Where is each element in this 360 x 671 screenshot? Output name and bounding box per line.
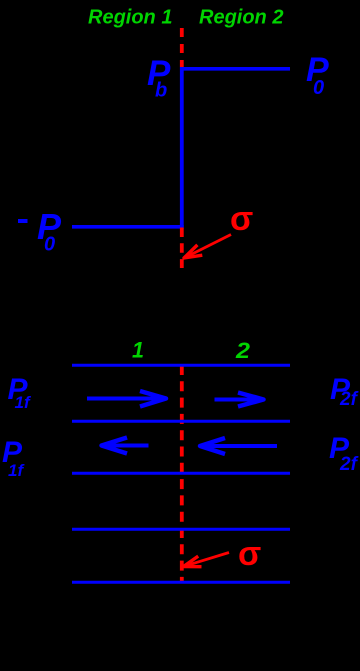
string line 1 [72,364,290,367]
svg-text:0: 0 [44,234,55,256]
svg-text:2f: 2f [339,389,359,410]
svg-text:2f: 2f [339,454,359,475]
arrow P1f leftward [102,438,149,454]
arrow P1f rightward [87,391,166,407]
string line 5 [72,581,290,584]
svg-text:1f: 1f [8,461,25,480]
label P_0 (top right) [306,51,329,99]
label P_2f (upper) [330,373,359,410]
arrow P2f leftward [200,438,277,454]
svg-text:σ: σ [230,200,253,238]
label P_1f (lower) [2,436,25,480]
svg-text:1f: 1f [15,393,32,412]
svg-text:Region 1: Region 1 [88,7,172,29]
arrow to interface (upper sigma arrow) [184,235,231,259]
arrow to interface (lower sigma arrow) [184,553,230,567]
label P_b [147,54,171,102]
svg-text:b: b [155,80,167,102]
dashed interface line (middle segment) [180,228,184,269]
wire: top pressure level P0 [180,67,290,71]
svg-text:2: 2 [235,338,251,363]
label P_1f (upper) [8,373,32,412]
wire: left pressure level -P0 [72,225,184,229]
svg-text:σ: σ [238,535,261,573]
svg-text:Region 2: Region 2 [199,7,283,29]
string line 2 [72,420,290,423]
wire: pressure step vertical [180,67,184,227]
string line 3 [72,472,290,475]
arrow P2f rightward [215,393,264,407]
label P_2f (lower) [329,432,359,475]
dashed interface line (top segment) [180,28,184,67]
svg-text:1: 1 [132,338,144,363]
label -P_0 (left) [18,206,62,256]
string line 4 [72,528,290,531]
svg-text:0: 0 [313,77,324,99]
dashed interface line (bottom segment) [180,365,184,581]
